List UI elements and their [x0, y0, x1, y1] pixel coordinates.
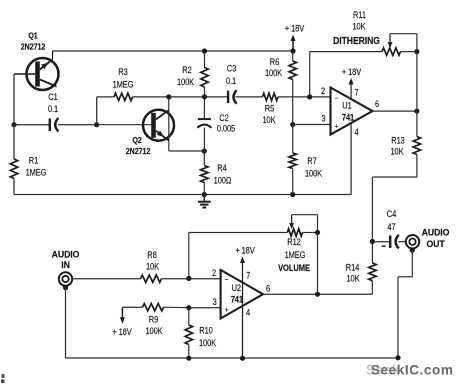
junction node C4/R14/R13 — [370, 239, 375, 244]
svg-text:2: 2 — [321, 86, 326, 96]
wire feedback column to volume pot — [189, 233, 287, 279]
junction node U1 out — [414, 109, 419, 114]
wire R12 node to output — [317, 233, 319, 295]
junction node pin3/R9/R10 — [186, 305, 191, 310]
svg-text:1MEG: 1MEG — [285, 250, 306, 260]
power +18V U2 pin7 arrow — [235, 246, 255, 358]
op-amp U1 741 — [331, 88, 373, 135]
junction node pin2/R12 — [186, 276, 191, 281]
wire Q2 collector column — [168, 97, 170, 151]
junction node R2/C3/C2 — [202, 94, 207, 99]
resistor R3 1MEG — [97, 93, 168, 100]
wire Q2 emitter to R4 node — [169, 150, 205, 152]
svg-text:C3: C3 — [227, 64, 237, 74]
wire ground rail of top circuit — [14, 194, 352, 196]
svg-text:10K: 10K — [262, 115, 276, 125]
scan speck bottom-left — [1, 374, 5, 383]
wire Q2 base — [97, 124, 153, 126]
label R8 10K — [146, 250, 160, 271]
resistor R1 1MEG — [10, 125, 17, 195]
svg-text:−: − — [225, 276, 229, 284]
label R12 1MEG VOLUME — [278, 237, 310, 273]
label R10 100K — [199, 326, 217, 348]
label Q1 — [21, 31, 46, 52]
resistor R6 100K — [289, 51, 296, 125]
svg-text:10K: 10K — [390, 147, 404, 157]
svg-text:10K: 10K — [146, 262, 160, 272]
junction node ground rail R4 — [202, 192, 207, 197]
capacitor C4 47 — [372, 235, 406, 249]
junction node rail/R10 — [186, 356, 191, 361]
label C2 0.005 — [217, 113, 236, 133]
svg-text:+: + — [225, 306, 229, 314]
svg-text:10K: 10K — [346, 274, 360, 284]
svg-text:C1: C1 — [48, 92, 58, 102]
svg-text:R3: R3 — [118, 67, 128, 77]
label U1 pin numbers — [321, 86, 380, 137]
svg-text:Seek: Seek — [366, 362, 400, 377]
junction node pin2/dithering — [307, 94, 312, 99]
label C4 47 — [387, 209, 397, 232]
junction node emitter/C2/R4 — [202, 148, 207, 153]
svg-text:R7: R7 — [307, 156, 317, 166]
svg-text:100K: 100K — [177, 77, 195, 87]
op-amp U2 741 — [221, 270, 263, 319]
label R9 100K — [145, 315, 163, 336]
label R7 100K — [305, 156, 323, 178]
svg-text:100Ω: 100Ω — [214, 176, 232, 186]
svg-text:6: 6 — [266, 284, 271, 294]
transistor Q1 2N2712 — [14, 51, 59, 90]
label R3 1MEG — [113, 67, 134, 89]
wire audio-in ground column — [65, 288, 67, 359]
label R11 10K DITHERING — [333, 10, 380, 47]
junction node C1/R3/Q2-base — [94, 122, 99, 127]
wire U1 pin3 — [293, 124, 331, 126]
svg-text:4: 4 — [246, 308, 251, 318]
wire bottom rail lower circuit — [66, 357, 399, 359]
svg-text:3: 3 — [213, 297, 218, 307]
label C1 0.1 — [48, 92, 59, 114]
wire R3 left column to C1 node — [96, 97, 98, 125]
svg-text:10K: 10K — [352, 22, 366, 32]
svg-text:7: 7 — [354, 88, 359, 98]
label R2 100K — [177, 65, 195, 87]
jack AUDIO IN — [59, 272, 72, 285]
junction node R11 right/wiper — [414, 49, 419, 54]
svg-text:R8: R8 — [147, 250, 157, 260]
power +18V R9 arrow — [112, 307, 132, 337]
svg-text:+ 18V: + 18V — [112, 327, 132, 337]
svg-text:100K: 100K — [305, 169, 323, 179]
svg-text:U1: U1 — [342, 101, 352, 111]
svg-text:Q2: Q2 — [132, 135, 142, 145]
svg-text:2N2712: 2N2712 — [21, 42, 46, 52]
wire U1 output — [373, 110, 417, 112]
svg-text:R10: R10 — [199, 326, 213, 336]
wire R13 bottom to C4 node — [372, 177, 417, 242]
svg-text:R6: R6 — [270, 57, 280, 67]
svg-text:AUDIO: AUDIO — [52, 249, 80, 259]
svg-text:C4: C4 — [387, 209, 397, 219]
svg-text:−: − — [335, 95, 339, 103]
svg-text:AUDIO: AUDIO — [422, 227, 450, 237]
resistor R4 100ohm — [201, 151, 208, 195]
junction node out jack shell — [410, 248, 415, 253]
svg-text:7: 7 — [246, 271, 251, 281]
resistor R14 10K — [369, 242, 376, 295]
svg-text:6: 6 — [375, 99, 380, 109]
junction node ground rail R7 — [290, 192, 295, 197]
label R13 10K — [390, 136, 405, 157]
power +18V top supply arrow — [285, 24, 305, 51]
wire Q1 base column — [13, 74, 15, 125]
svg-text:2: 2 — [212, 268, 217, 278]
resistor R5 10K — [236, 93, 331, 100]
svg-text:741: 741 — [231, 295, 244, 305]
wire +18V top rail — [53, 50, 294, 52]
resistor R13 10K — [413, 111, 420, 177]
label U2 pin numbers — [212, 268, 271, 317]
svg-text:C2: C2 — [219, 113, 229, 123]
wire dithering feedback column to pin2 — [309, 52, 311, 97]
wire audio-out ground path — [398, 250, 412, 358]
label Q2 — [126, 135, 151, 156]
svg-text:2N2712: 2N2712 — [126, 146, 151, 156]
svg-text:4: 4 — [354, 127, 359, 137]
resistor R9 100K — [122, 304, 188, 311]
junction node R3/collector — [166, 94, 171, 99]
resistor R8 10K — [141, 275, 162, 282]
ground symbol — [198, 195, 211, 208]
svg-text:R9: R9 — [149, 315, 159, 325]
svg-text:R2: R2 — [182, 65, 192, 75]
resistor R7 100K — [289, 125, 296, 195]
svg-text:R5: R5 — [265, 104, 275, 114]
svg-text:R1: R1 — [29, 156, 39, 166]
svg-text:0.005: 0.005 — [217, 124, 236, 134]
resistor R10 100K — [185, 308, 192, 359]
wire right column dithering to output — [416, 52, 418, 112]
svg-text:IN: IN — [61, 260, 70, 270]
svg-text:Q1: Q1 — [28, 31, 38, 41]
capacitor C1 — [14, 118, 97, 132]
svg-text:U2: U2 — [232, 284, 242, 294]
svg-text:+ 18V: + 18V — [235, 246, 255, 256]
wire U2 output row — [263, 293, 372, 295]
svg-text:R11: R11 — [353, 10, 366, 20]
svg-text:+ 18V: + 18V — [342, 67, 362, 77]
wire U1 pin7/pin4 column — [350, 83, 352, 195]
wire audio in row to U2 pin2 — [72, 278, 221, 280]
potentiometer R11 dithering — [310, 48, 417, 55]
junction node rail right corner — [395, 355, 400, 360]
watermark SeekIC.com — [366, 362, 454, 377]
svg-text:+ 18V: + 18V — [285, 24, 305, 34]
svg-text:0.1: 0.1 — [48, 104, 59, 114]
svg-text:R12: R12 — [287, 237, 301, 247]
junction node output/R12 column — [315, 292, 320, 297]
svg-text:OUT: OUT — [426, 239, 445, 249]
svg-text:0.1: 0.1 — [226, 76, 237, 86]
svg-text:100K: 100K — [145, 326, 163, 336]
wire node row y=97 segment — [169, 96, 228, 98]
capacitor C3 0.1 — [227, 91, 229, 104]
junction node R6/R7/pin3 — [290, 122, 295, 127]
svg-text:1MEG: 1MEG — [113, 80, 134, 90]
label R4 100ohm — [214, 163, 232, 185]
svg-text:100K: 100K — [265, 68, 283, 78]
wiper of R12 — [289, 215, 317, 233]
transistor Q2 2N2712 — [143, 110, 174, 141]
capacitor C2 0.005 — [197, 97, 211, 151]
svg-text:47: 47 — [387, 222, 396, 232]
label R1 1MEG — [26, 156, 47, 178]
label AUDIO OUT — [422, 227, 450, 249]
wire U2 pin3 — [189, 307, 221, 309]
svg-text:R4: R4 — [217, 163, 227, 173]
junction node base/R1/C1 — [11, 122, 16, 127]
svg-text:3: 3 — [321, 114, 326, 124]
junction node jack shell — [63, 285, 68, 290]
resistor R2 100K — [201, 51, 208, 97]
label R14 10K — [346, 263, 360, 284]
svg-text:VOLUME: VOLUME — [278, 262, 310, 273]
power +18V U1 pin7 arrow — [342, 67, 362, 84]
svg-text:741: 741 — [342, 113, 355, 123]
label R5 10K — [262, 104, 276, 125]
jack AUDIO OUT — [406, 235, 419, 248]
junction node R12 right/wiper — [315, 230, 320, 235]
wiper of R11 — [388, 34, 417, 52]
svg-text:DITHERING: DITHERING — [333, 35, 380, 47]
label AUDIO IN — [52, 249, 80, 270]
junction node +18V/rail — [290, 48, 295, 53]
svg-text:100K: 100K — [199, 338, 217, 348]
potentiometer R12 1MEG volume — [287, 229, 317, 236]
junction node rail/U2 pin4 — [240, 356, 245, 361]
label C3 0.1 — [226, 64, 237, 86]
svg-text:+: + — [335, 123, 339, 131]
label R6 100K — [265, 57, 283, 78]
svg-text:R13: R13 — [391, 136, 405, 146]
svg-text:1MEG: 1MEG — [26, 168, 47, 178]
junction node rail/R2 — [202, 48, 207, 53]
svg-text:R14: R14 — [346, 263, 360, 273]
